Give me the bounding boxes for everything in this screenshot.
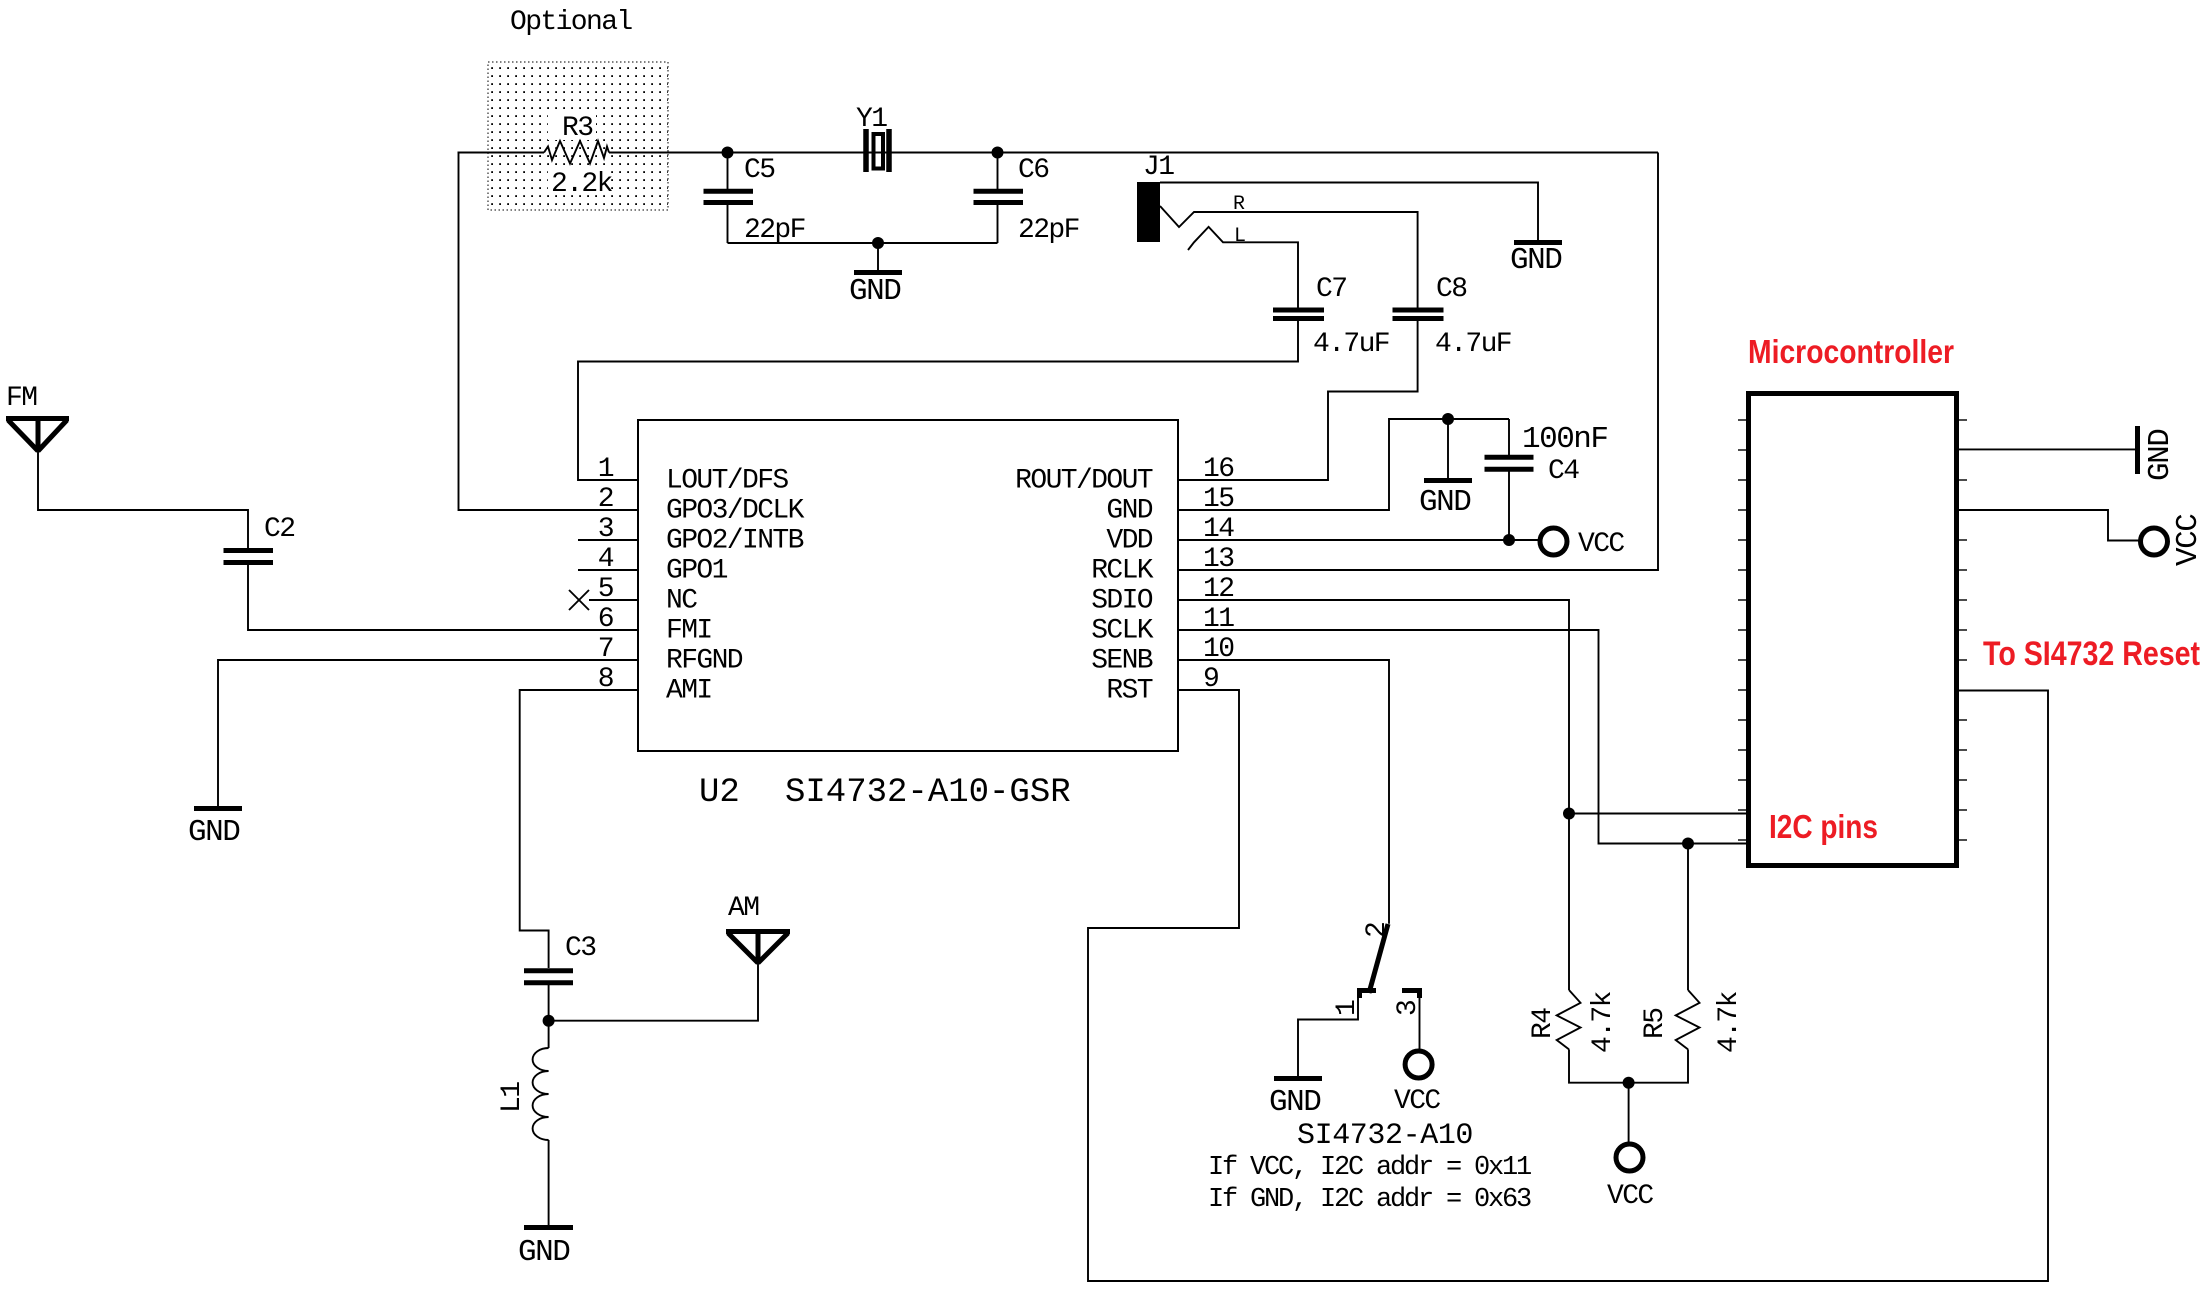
wire: R4/R5 bottoms to VCC <box>1569 1049 1688 1144</box>
wire: L contact to C7 <box>1188 227 1298 308</box>
resistor R3 <box>544 112 613 200</box>
wire: pin15 GND to C4 top <box>1178 419 1509 510</box>
svg-text:RCLK: RCLK <box>1091 556 1154 587</box>
svg-text:AMI: AMI <box>666 676 712 707</box>
switch SW pin2 label <box>1362 923 1393 938</box>
wire: pin7 RFGND to ground <box>218 660 638 807</box>
svg-text:C2: C2 <box>264 514 294 545</box>
power VCC at pullups <box>1607 1144 1653 1212</box>
svg-text:C8: C8 <box>1436 274 1466 305</box>
svg-text:VCC: VCC <box>2171 514 2206 566</box>
pin 5 NC stub with X mark <box>569 590 638 610</box>
svg-text:R4: R4 <box>1528 1008 1559 1039</box>
pin 5 label NC <box>598 574 697 617</box>
svg-text:FM: FM <box>6 383 37 414</box>
wire: MCU GND pin <box>1959 448 2137 450</box>
pin 3 label GPO2/INTB <box>598 514 804 557</box>
wire: L1 to ground <box>548 1140 550 1226</box>
svg-text:100nF: 100nF <box>1522 422 1608 457</box>
svg-text:2.2k: 2.2k <box>551 169 613 200</box>
node: junction C3/L1/AM <box>543 1015 555 1027</box>
wire: AM antenna to junction <box>549 963 758 1021</box>
pin 4 stub wire <box>578 569 638 571</box>
capacitor C3 <box>524 933 596 983</box>
ground: C4 GND <box>1419 419 1472 520</box>
note: If VCC addr <box>1208 1153 1531 1183</box>
svg-text:R3: R3 <box>562 113 593 144</box>
svg-text:L: L <box>1234 225 1245 248</box>
svg-text:NC: NC <box>666 586 697 617</box>
wire: pin8 AMI to C3 <box>520 690 638 968</box>
capacitor C4 <box>1485 419 1608 540</box>
svg-text:4.7k: 4.7k <box>1714 991 1745 1053</box>
resistor R5 <box>1640 990 1745 1053</box>
svg-text:GND: GND <box>518 1235 570 1270</box>
wire: pin13 RCLK to crystal <box>1178 153 1658 571</box>
note: If GND addr <box>1208 1185 1531 1215</box>
svg-text:GPO1: GPO1 <box>666 556 728 587</box>
pin 8 label AMI <box>598 664 712 707</box>
svg-text:AM: AM <box>728 893 759 924</box>
svg-text:If GND, I2C addr = 0x63: If GND, I2C addr = 0x63 <box>1208 1185 1531 1215</box>
svg-text:GPO2/INTB: GPO2/INTB <box>666 526 804 557</box>
pin 3 stub wire <box>578 539 638 541</box>
svg-text:To SI4732 Reset: To SI4732 Reset <box>1983 635 2200 673</box>
svg-text:L1: L1 <box>497 1082 528 1113</box>
svg-text:VDD: VDD <box>1106 526 1152 557</box>
svg-text:U2: U2 <box>699 774 740 812</box>
svg-text:If VCC, I2C addr = 0x11: If VCC, I2C addr = 0x11 <box>1208 1153 1531 1183</box>
pin 2 label GPO3/DCLK <box>598 484 805 527</box>
svg-text:FMI: FMI <box>666 616 712 647</box>
wire: J1 sleeve to GND <box>1160 183 1538 242</box>
svg-text:C5: C5 <box>744 155 775 186</box>
wire: R3 left lead down to pin2 <box>459 153 639 511</box>
wire: crystal net top line <box>458 152 1659 154</box>
svg-text:22pF: 22pF <box>744 215 805 246</box>
svg-text:C4: C4 <box>1548 456 1579 487</box>
ground: crystal caps GND <box>849 243 902 309</box>
inductor L1 <box>497 1048 549 1140</box>
svg-text:1: 1 <box>598 454 614 485</box>
wire: switch pin1 to ground <box>1298 998 1358 1077</box>
svg-text:J1: J1 <box>1143 152 1174 183</box>
svg-text:4.7uF: 4.7uF <box>1435 329 1511 360</box>
svg-text:Microcontroller: Microcontroller <box>1748 333 1954 370</box>
pin 7 label RFGND <box>598 634 743 677</box>
ground: L1 GND <box>518 1228 573 1271</box>
pin L label <box>1234 225 1245 248</box>
switch pin3 contact <box>1393 991 1424 1017</box>
svg-text:GND: GND <box>1510 243 1562 278</box>
node: junction at C6 top <box>992 147 1004 159</box>
svg-text:Y1: Y1 <box>856 104 887 135</box>
microcontroller U-MCU box <box>1738 333 1967 866</box>
node: junction at crystal ground <box>872 237 884 249</box>
svg-text:GND: GND <box>849 274 901 309</box>
pin 11 label SCLK <box>1091 604 1234 647</box>
svg-text:4.7uF: 4.7uF <box>1313 329 1389 360</box>
svg-text:RFGND: RFGND <box>666 646 743 677</box>
pin R label <box>1233 193 1245 216</box>
ground: MCU GND (rotated) <box>2138 426 2179 481</box>
pin 15 label GND <box>1106 484 1234 527</box>
optional region box (dotted) <box>488 62 668 210</box>
ground: RFGND GND <box>188 809 242 851</box>
connector J1 audio jack <box>1137 152 1174 242</box>
wire: pin12 SDIO net <box>1178 600 1746 990</box>
svg-text:C3: C3 <box>565 933 596 964</box>
node: junction C4 top <box>1442 413 1454 425</box>
svg-text:2: 2 <box>598 484 613 515</box>
wire: switch pin3 to VCC <box>1419 998 1421 1051</box>
pin 4 label GPO1 <box>598 544 728 587</box>
wire: pin11 SCLK net <box>1178 630 1746 990</box>
switch pin1 contact <box>1332 991 1376 1017</box>
wire: C3 bottom to junction <box>548 985 550 1048</box>
capacitor C7 <box>1273 274 1389 360</box>
capacitor C5 <box>704 153 805 247</box>
pin 1 label LOUT/DFS <box>598 454 789 497</box>
svg-text:SI4732-A10: SI4732-A10 <box>1297 1119 1473 1153</box>
pin 9 label RST <box>1106 664 1218 707</box>
node: junction VDD/C4 <box>1503 534 1515 546</box>
resistor R4 <box>1528 990 1619 1053</box>
wire: pin14 VDD to VCC <box>1178 539 1540 541</box>
svg-text:SI4732-A10-GSR: SI4732-A10-GSR <box>785 774 1071 812</box>
svg-text:16: 16 <box>1203 454 1233 485</box>
capacitor C8 <box>1393 274 1512 360</box>
svg-text:LOUT/DFS: LOUT/DFS <box>666 466 788 497</box>
ground: J1 GND <box>1510 243 1562 279</box>
switch arm <box>1369 924 1388 993</box>
antenna FM <box>6 383 69 451</box>
pin 10 label SENB <box>1091 634 1234 677</box>
pin 12 label SDIO <box>1091 574 1233 617</box>
svg-text:VCC: VCC <box>1578 529 1624 560</box>
node: junction SDIO <box>1563 808 1575 820</box>
wire: C8 bottom to IC pin16 <box>1178 321 1418 481</box>
node: junction SCLK <box>1682 838 1694 850</box>
pin 6 label FMI <box>598 604 712 647</box>
svg-text:GND: GND <box>1106 496 1152 527</box>
svg-text:I2C pins: I2C pins <box>1769 808 1878 845</box>
wire: FM antenna to C2 <box>38 451 248 548</box>
antenna AM <box>726 893 790 963</box>
svg-text:4.7k: 4.7k <box>1588 991 1619 1053</box>
svg-text:ROUT/DOUT: ROUT/DOUT <box>1015 466 1153 497</box>
label Optional <box>510 7 632 38</box>
svg-text:R5: R5 <box>1640 1008 1671 1039</box>
wire: pin10 SENB to switch <box>1178 660 1389 924</box>
svg-text:Optional: Optional <box>510 7 632 38</box>
ground: switch GND <box>1269 1079 1322 1121</box>
svg-text:SDIO: SDIO <box>1091 586 1153 617</box>
label To SI4732 Reset <box>1983 635 2200 673</box>
power VCC at VDD <box>1540 528 1624 560</box>
svg-text:C7: C7 <box>1316 274 1346 305</box>
wire: pin9 RST to microcontroller reset <box>1088 690 2048 1281</box>
pin 13 label RCLK <box>1091 544 1234 587</box>
wire: C2 to pin6 FMI <box>248 565 638 630</box>
wire: C5/C6 bottoms to ground <box>728 242 998 244</box>
power VCC at switch <box>1394 1051 1440 1117</box>
wire: MCU VCC pin <box>1959 510 2140 541</box>
capacitor C6 <box>974 153 1079 247</box>
pin 14 label VDD <box>1106 514 1234 557</box>
IC U2 SI4732-A10-GSR body <box>638 420 1178 812</box>
svg-text:GND: GND <box>2143 429 2178 481</box>
svg-text:GPO3/DCLK: GPO3/DCLK <box>666 496 805 527</box>
power VCC at MCU (rotated) <box>2141 514 2207 566</box>
wire: C7 bottom to IC pin1 <box>578 321 1298 481</box>
pin 16 label ROUT/DOUT <box>1015 454 1233 497</box>
svg-text:GND: GND <box>188 815 240 850</box>
svg-text:VCC: VCC <box>1394 1086 1440 1117</box>
svg-text:GND: GND <box>1269 1085 1321 1120</box>
crystal Y1 <box>856 104 889 172</box>
svg-text:C6: C6 <box>1018 155 1048 186</box>
svg-text:SENB: SENB <box>1091 646 1153 677</box>
switch caption SI4732-A10 <box>1297 1119 1473 1153</box>
svg-text:VCC: VCC <box>1607 1181 1653 1212</box>
wire: R contact to C8 <box>1160 206 1418 308</box>
node: junction at C5 top <box>722 147 734 159</box>
svg-text:RST: RST <box>1106 676 1152 707</box>
svg-text:22pF: 22pF <box>1018 215 1079 246</box>
svg-text:GND: GND <box>1419 485 1471 520</box>
node: junction R4/R5 <box>1623 1077 1635 1089</box>
capacitor C2 <box>224 514 295 563</box>
svg-text:SCLK: SCLK <box>1091 616 1154 647</box>
